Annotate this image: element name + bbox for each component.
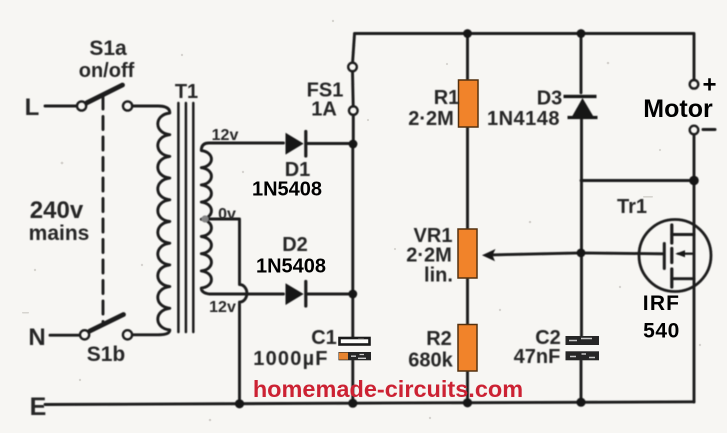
svg-text:R1: R1 bbox=[434, 87, 460, 109]
svg-text:1N5408: 1N5408 bbox=[252, 179, 322, 201]
svg-text:1N4148: 1N4148 bbox=[487, 108, 560, 130]
svg-text:mains: mains bbox=[29, 222, 90, 245]
svg-text:lin.: lin. bbox=[424, 265, 453, 287]
svg-text:Motor: Motor bbox=[643, 95, 713, 123]
svg-text:1N5408: 1N5408 bbox=[256, 256, 326, 278]
svg-text:240v: 240v bbox=[30, 197, 84, 224]
svg-text:L: L bbox=[25, 94, 40, 121]
svg-text:IRF: IRF bbox=[643, 292, 680, 315]
svg-text:S1a: S1a bbox=[89, 37, 127, 60]
svg-text:C1: C1 bbox=[311, 327, 337, 349]
svg-text:on/off: on/off bbox=[79, 60, 135, 82]
svg-text:E: E bbox=[30, 393, 47, 421]
svg-text:N: N bbox=[28, 324, 45, 351]
svg-text:R2: R2 bbox=[426, 328, 452, 350]
svg-text:47nF: 47nF bbox=[514, 346, 561, 368]
svg-text:2·2M: 2·2M bbox=[408, 108, 454, 130]
svg-text:1000µF: 1000µF bbox=[253, 348, 328, 370]
svg-text:2·2M: 2·2M bbox=[406, 245, 452, 267]
svg-text:0v: 0v bbox=[218, 206, 236, 223]
svg-text:S1b: S1b bbox=[87, 343, 126, 366]
svg-text:12v: 12v bbox=[209, 299, 236, 316]
svg-text:540: 540 bbox=[643, 320, 680, 343]
svg-text:+: + bbox=[702, 72, 716, 99]
svg-text:D3: D3 bbox=[537, 88, 563, 110]
svg-text:12v: 12v bbox=[212, 127, 239, 144]
svg-text:T1: T1 bbox=[175, 81, 198, 103]
svg-text:680k: 680k bbox=[408, 350, 453, 372]
svg-text:1A: 1A bbox=[311, 99, 337, 121]
svg-text:Tr1: Tr1 bbox=[617, 196, 647, 218]
svg-text:homemade-circuits.com: homemade-circuits.com bbox=[253, 376, 523, 402]
svg-text:D2: D2 bbox=[282, 234, 308, 256]
